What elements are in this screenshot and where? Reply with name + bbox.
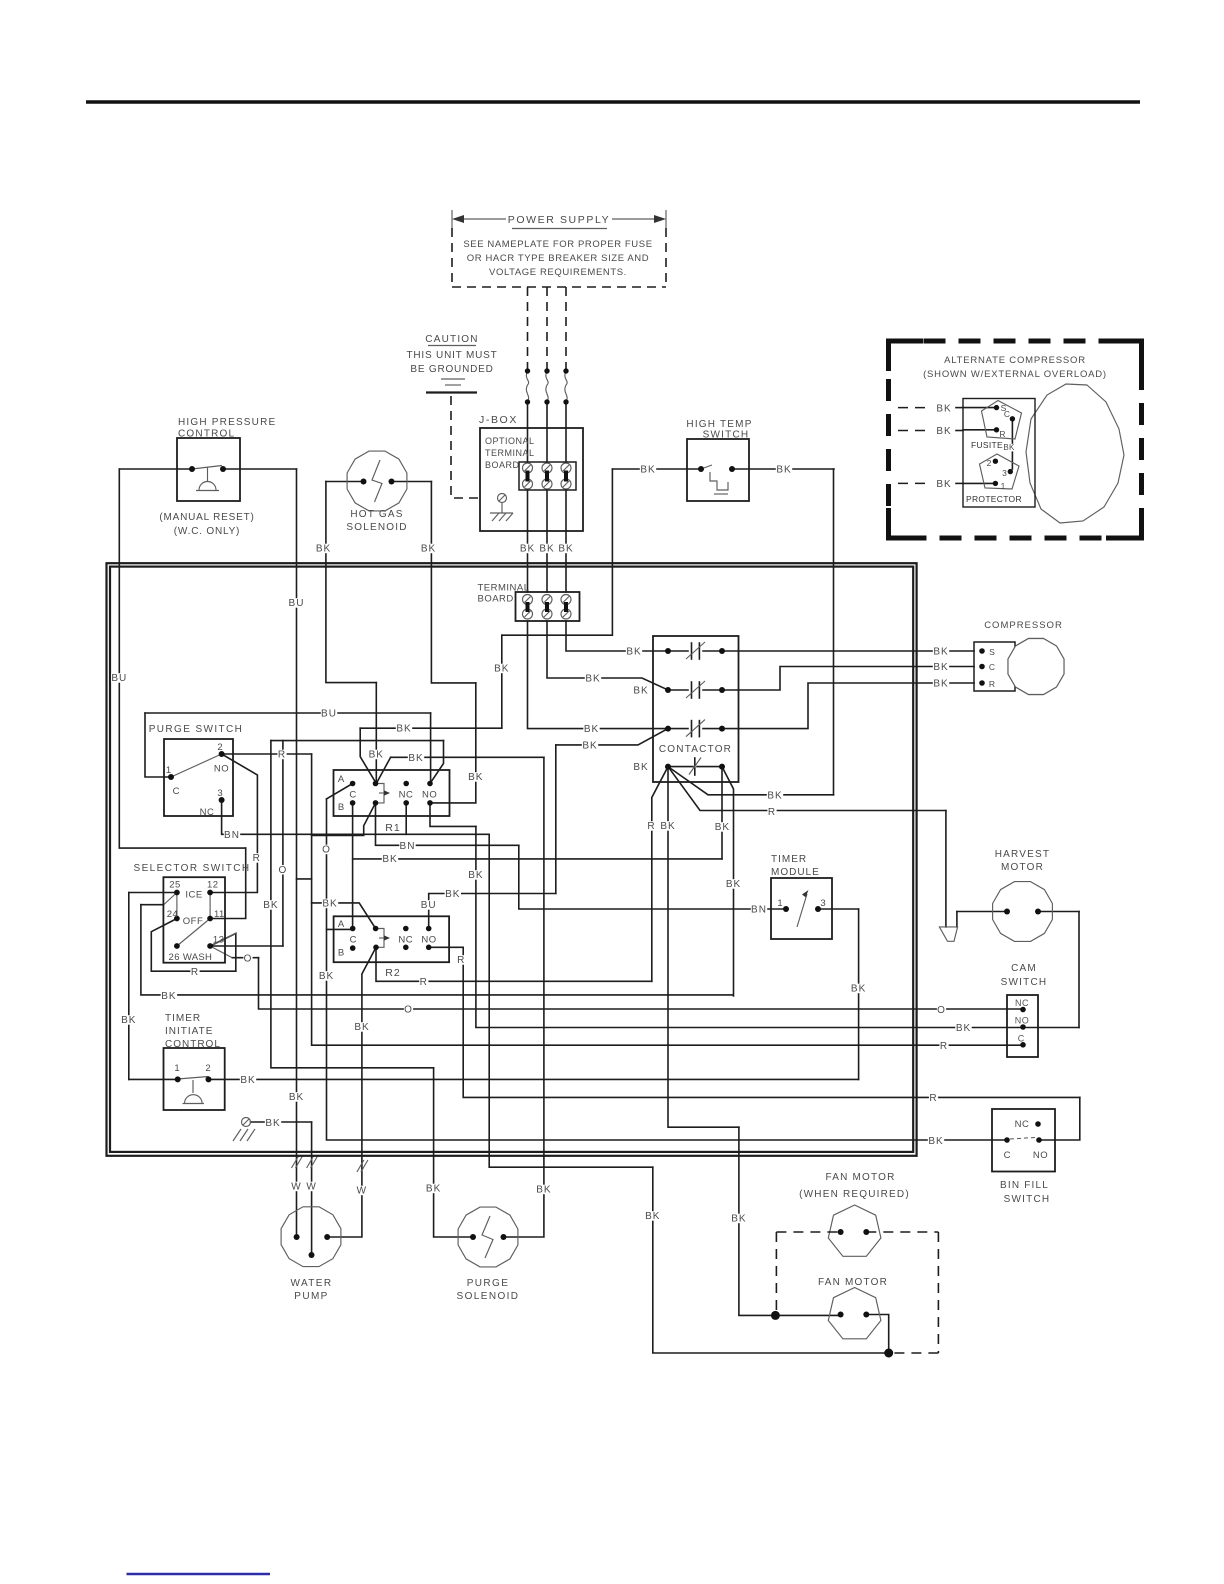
- svg-text:12: 12: [207, 880, 219, 891]
- svg-text:B: B: [338, 948, 344, 959]
- svg-text:R: R: [989, 679, 995, 689]
- svg-text:BK: BK: [633, 686, 648, 697]
- svg-text:SWITCH: SWITCH: [1001, 977, 1048, 988]
- svg-text:(MANUAL RESET): (MANUAL RESET): [159, 512, 254, 523]
- svg-text:PUMP: PUMP: [294, 1291, 329, 1302]
- svg-text:A: A: [338, 919, 345, 930]
- svg-text:MODULE: MODULE: [771, 867, 820, 878]
- svg-text:BK: BK: [382, 854, 397, 865]
- svg-text:BIN FILL: BIN FILL: [1000, 1180, 1049, 1191]
- svg-text:R: R: [768, 807, 776, 818]
- svg-text:NO: NO: [422, 790, 437, 801]
- svg-text:BK: BK: [933, 662, 948, 673]
- svg-text:R: R: [647, 821, 655, 832]
- svg-text:C: C: [989, 662, 995, 672]
- svg-text:BU: BU: [111, 673, 127, 684]
- svg-text:HARVEST: HARVEST: [995, 849, 1050, 860]
- svg-text:INITIATE: INITIATE: [165, 1026, 213, 1037]
- svg-text:NO: NO: [421, 935, 436, 946]
- svg-text:BOARD: BOARD: [478, 594, 514, 605]
- svg-text:CAM: CAM: [1011, 963, 1037, 974]
- svg-text:BOARD: BOARD: [485, 460, 520, 470]
- svg-text:1: 1: [166, 765, 171, 776]
- svg-text:NC: NC: [399, 790, 414, 801]
- svg-text:BK: BK: [316, 544, 331, 555]
- svg-text:TIMER: TIMER: [165, 1013, 201, 1024]
- svg-text:BK: BK: [322, 899, 337, 910]
- svg-text:BK: BK: [426, 1184, 441, 1195]
- svg-text:TERMINAL: TERMINAL: [485, 448, 535, 458]
- svg-text:SWITCH: SWITCH: [703, 430, 750, 441]
- svg-text:BK: BK: [928, 1136, 943, 1147]
- svg-text:C: C: [1004, 1150, 1011, 1161]
- svg-text:26: 26: [169, 952, 181, 963]
- svg-text:W: W: [291, 1182, 301, 1193]
- svg-text:(W.C. ONLY): (W.C. ONLY): [174, 526, 240, 537]
- svg-text:BK: BK: [536, 1185, 551, 1196]
- svg-text:NO: NO: [214, 764, 229, 775]
- svg-text:BK: BK: [494, 664, 509, 675]
- svg-text:3: 3: [1002, 468, 1007, 478]
- svg-text:HOT GAS: HOT GAS: [350, 509, 403, 520]
- svg-text:POWER SUPPLY: POWER SUPPLY: [508, 214, 610, 226]
- svg-text:C: C: [1018, 1034, 1025, 1044]
- svg-text:CAUTION: CAUTION: [425, 334, 478, 345]
- svg-text:W: W: [306, 1182, 316, 1193]
- svg-text:S: S: [989, 647, 995, 657]
- svg-text:C: C: [349, 790, 356, 801]
- svg-text:BK: BK: [396, 724, 411, 735]
- svg-text:HIGH TEMP: HIGH TEMP: [686, 419, 752, 430]
- svg-text:2: 2: [987, 458, 992, 468]
- svg-text:SWITCH: SWITCH: [1004, 1194, 1051, 1205]
- svg-text:BU: BU: [321, 709, 337, 720]
- svg-text:VOLTAGE REQUIREMENTS.: VOLTAGE REQUIREMENTS.: [489, 267, 627, 278]
- svg-text:3: 3: [217, 788, 222, 799]
- svg-text:W: W: [357, 1186, 367, 1197]
- svg-text:1: 1: [777, 898, 782, 909]
- svg-text:BK: BK: [354, 1022, 369, 1033]
- svg-text:R2: R2: [385, 967, 400, 979]
- svg-text:BK: BK: [265, 1118, 280, 1129]
- svg-text:BU: BU: [289, 598, 305, 609]
- svg-text:BK: BK: [767, 790, 782, 801]
- svg-text:BK: BK: [1003, 443, 1015, 452]
- svg-text:BK: BK: [956, 1023, 971, 1034]
- svg-text:BK: BK: [369, 750, 384, 761]
- svg-text:CONTACTOR: CONTACTOR: [659, 744, 732, 755]
- svg-text:MOTOR: MOTOR: [1001, 862, 1044, 873]
- svg-text:3: 3: [820, 898, 825, 909]
- svg-text:C: C: [350, 935, 357, 946]
- svg-text:BK: BK: [776, 465, 791, 476]
- svg-text:J-BOX: J-BOX: [479, 414, 518, 426]
- svg-text:BK: BK: [468, 870, 483, 881]
- svg-text:BK: BK: [936, 479, 951, 490]
- svg-text:BN: BN: [751, 905, 767, 916]
- svg-text:ALTERNATE COMPRESSOR: ALTERNATE COMPRESSOR: [944, 355, 1086, 366]
- svg-text:C: C: [1004, 409, 1010, 419]
- svg-text:HIGH PRESSURE: HIGH PRESSURE: [178, 417, 276, 428]
- svg-text:24: 24: [167, 909, 179, 920]
- svg-text:R: R: [420, 977, 428, 988]
- svg-text:BK: BK: [468, 772, 483, 783]
- svg-text:BK: BK: [520, 544, 535, 555]
- svg-text:BK: BK: [161, 991, 176, 1002]
- svg-text:OFF: OFF: [183, 916, 204, 927]
- svg-text:1: 1: [1001, 481, 1006, 491]
- svg-text:CONTROL: CONTROL: [165, 1039, 221, 1050]
- svg-text:NC: NC: [1015, 998, 1029, 1008]
- svg-text:O: O: [937, 1005, 946, 1016]
- svg-text:PURGE: PURGE: [467, 1278, 510, 1289]
- svg-text:SOLENOID: SOLENOID: [346, 522, 407, 533]
- svg-text:BK: BK: [289, 1092, 304, 1103]
- svg-text:PURGE SWITCH: PURGE SWITCH: [149, 724, 244, 735]
- svg-text:BK: BK: [640, 465, 655, 476]
- svg-text:BK: BK: [936, 426, 951, 437]
- svg-text:O: O: [322, 845, 331, 856]
- svg-text:BK: BK: [645, 1211, 660, 1222]
- svg-text:BK: BK: [933, 679, 948, 690]
- svg-text:(SHOWN W/EXTERNAL OVERLOAD): (SHOWN W/EXTERNAL OVERLOAD): [923, 369, 1107, 380]
- svg-text:R: R: [278, 750, 286, 761]
- svg-text:BK: BK: [240, 1075, 255, 1086]
- svg-text:25: 25: [169, 880, 181, 891]
- svg-text:2: 2: [217, 742, 222, 753]
- svg-text:R: R: [940, 1041, 948, 1052]
- svg-text:BK: BK: [936, 404, 951, 415]
- svg-text:BU: BU: [421, 900, 437, 911]
- svg-text:PROTECTOR: PROTECTOR: [966, 494, 1022, 504]
- svg-text:(WHEN REQUIRED): (WHEN REQUIRED): [799, 1189, 910, 1200]
- svg-text:TIMER: TIMER: [771, 854, 807, 865]
- svg-text:BK: BK: [660, 821, 675, 832]
- svg-text:BK: BK: [851, 984, 866, 995]
- svg-text:OR HACR TYPE BREAKER SIZE AND: OR HACR TYPE BREAKER SIZE AND: [467, 253, 649, 264]
- svg-text:1: 1: [174, 1063, 179, 1074]
- svg-text:A: A: [338, 774, 345, 785]
- svg-text:NC: NC: [398, 935, 413, 946]
- svg-text:O: O: [279, 865, 288, 876]
- svg-text:BK: BK: [726, 879, 741, 890]
- svg-text:BN: BN: [400, 841, 416, 852]
- svg-text:WATER: WATER: [291, 1278, 333, 1289]
- svg-text:2: 2: [205, 1063, 210, 1074]
- svg-text:BK: BK: [421, 544, 436, 555]
- svg-text:O: O: [244, 953, 253, 964]
- svg-text:R: R: [253, 853, 261, 864]
- svg-text:BN: BN: [224, 830, 240, 841]
- svg-text:R: R: [929, 1093, 937, 1104]
- svg-text:BK: BK: [319, 971, 334, 982]
- svg-text:BK: BK: [558, 544, 573, 555]
- svg-text:11: 11: [214, 909, 225, 920]
- svg-text:OPTIONAL: OPTIONAL: [485, 436, 535, 446]
- svg-text:SELECTOR SWITCH: SELECTOR SWITCH: [134, 863, 251, 874]
- svg-text:NC: NC: [200, 807, 215, 818]
- svg-text:ICE: ICE: [185, 890, 202, 901]
- svg-text:CONTROL: CONTROL: [178, 429, 235, 440]
- svg-text:BK: BK: [263, 900, 278, 911]
- svg-text:C: C: [173, 786, 180, 797]
- svg-text:THIS UNIT MUST: THIS UNIT MUST: [406, 350, 497, 361]
- svg-text:BE GROUNDED: BE GROUNDED: [410, 364, 493, 375]
- svg-text:FAN MOTOR: FAN MOTOR: [818, 1277, 888, 1288]
- svg-text:SOLENOID: SOLENOID: [457, 1291, 520, 1302]
- svg-text:BK: BK: [933, 647, 948, 658]
- svg-text:FUSITE: FUSITE: [971, 440, 1003, 450]
- svg-text:R: R: [457, 955, 465, 966]
- svg-text:O: O: [404, 1005, 413, 1016]
- svg-text:BK: BK: [121, 1015, 136, 1026]
- svg-text:13: 13: [213, 935, 225, 946]
- svg-text:R: R: [191, 967, 199, 978]
- svg-text:BK: BK: [633, 762, 648, 773]
- svg-text:BK: BK: [584, 724, 599, 735]
- svg-text:R: R: [999, 429, 1005, 439]
- svg-text:R1: R1: [385, 822, 400, 834]
- svg-text:BK: BK: [731, 1214, 746, 1225]
- svg-text:NC: NC: [1015, 1119, 1030, 1130]
- svg-text:WASH: WASH: [183, 952, 212, 963]
- svg-text:BK: BK: [585, 674, 600, 685]
- svg-text:SEE NAMEPLATE FOR PROPER FUSE: SEE NAMEPLATE FOR PROPER FUSE: [463, 239, 652, 250]
- svg-text:NO: NO: [1033, 1150, 1048, 1161]
- svg-text:TERMINAL: TERMINAL: [478, 583, 530, 594]
- svg-text:BK: BK: [582, 741, 597, 752]
- svg-text:FAN MOTOR: FAN MOTOR: [825, 1172, 895, 1183]
- svg-text:B: B: [338, 802, 344, 813]
- svg-text:COMPRESSOR: COMPRESSOR: [984, 620, 1063, 631]
- svg-text:BK: BK: [539, 544, 554, 555]
- svg-text:BK: BK: [715, 822, 730, 833]
- svg-text:BK: BK: [445, 889, 460, 900]
- svg-text:BK: BK: [408, 753, 423, 764]
- svg-text:BK: BK: [626, 647, 641, 658]
- svg-text:NO: NO: [1015, 1016, 1030, 1026]
